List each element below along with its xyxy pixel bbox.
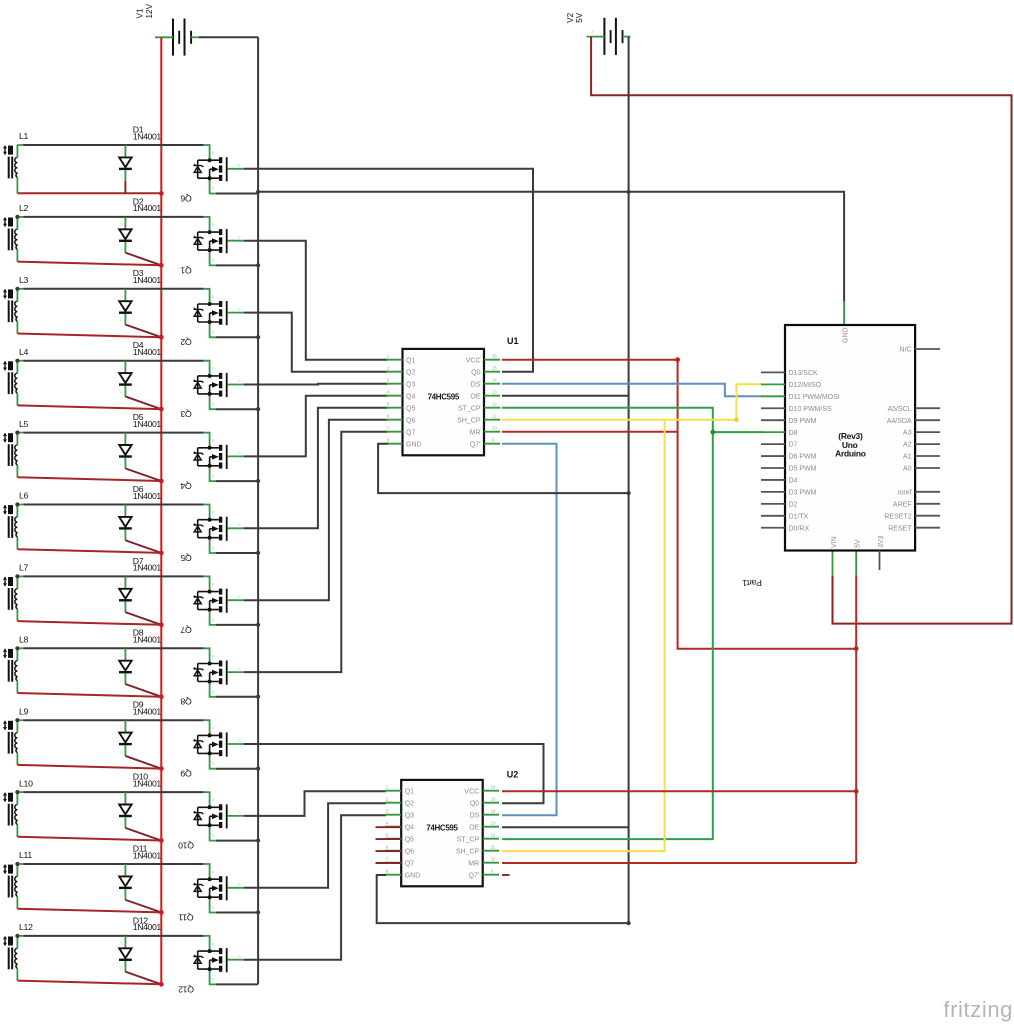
wire gate Q7 to U1 pin Q6 — [244, 420, 388, 601]
wire U2 MR 5V — [502, 862, 856, 864]
svg-text:Q12: Q12 — [178, 984, 194, 994]
svg-text:DS: DS — [471, 381, 481, 388]
svg-text:1N4001: 1N4001 — [133, 563, 162, 573]
svg-text:1N4001: 1N4001 — [133, 707, 162, 717]
wire U1 OE to GND — [502, 395, 629, 397]
junction U1 GND / V2 minus — [627, 491, 631, 495]
wire Q12 source to GND bus — [216, 983, 258, 985]
junction GND bus block 4 — [256, 407, 260, 411]
junction GND bus / horizontal — [256, 190, 260, 194]
svg-text:13: 13 — [491, 821, 496, 826]
junction GND bus block 5 — [256, 479, 260, 483]
svg-text:Q5: Q5 — [180, 553, 191, 563]
node L4 top junction — [15, 359, 19, 363]
svg-text:1N4001: 1N4001 — [133, 635, 162, 645]
junction 12V bus block 10 — [159, 838, 164, 843]
svg-text:L4: L4 — [19, 347, 29, 357]
svg-text:1N4001: 1N4001 — [133, 922, 162, 932]
junction 12V bus block 5 — [159, 479, 164, 484]
wire Q6 source to GND bus — [216, 193, 258, 195]
node L9 top junction — [15, 718, 19, 722]
svg-text:D2: D2 — [789, 501, 798, 508]
inductor L10 — [3, 778, 33, 837]
svg-text:Q9: Q9 — [180, 769, 191, 779]
inductor L6 — [3, 491, 29, 550]
wire VIN green stub — [832, 551, 834, 575]
svg-text:Q3: Q3 — [405, 812, 414, 819]
node L8 top junction — [15, 646, 19, 650]
svg-text:D1/TX: D1/TX — [789, 513, 809, 520]
wire D10 cathode slant to bus — [125, 828, 161, 841]
svg-text:SH_CP: SH_CP — [457, 417, 481, 424]
svg-text:13: 13 — [492, 390, 497, 395]
svg-text:1N4001: 1N4001 — [133, 203, 162, 213]
wire Q3 source to GND bus — [216, 408, 258, 410]
svg-text:1N4001: 1N4001 — [133, 850, 162, 860]
svg-text:5V: 5V — [855, 539, 862, 548]
diode D1 — [119, 124, 161, 181]
wire L5 bottom slant to bus — [17, 477, 161, 481]
svg-text:Q11: Q11 — [178, 912, 193, 922]
wire D2 cathode slant to bus — [125, 253, 161, 266]
svg-text:1N4001: 1N4001 — [133, 131, 162, 141]
wire L9 top to MOSFET drain — [17, 719, 203, 721]
inductor L1 — [3, 131, 29, 190]
svg-text:D5 PWM: D5 PWM — [789, 466, 817, 473]
wire L2 top to MOSFET drain — [17, 216, 203, 218]
wire D6 cathode slant to bus — [125, 540, 161, 553]
wire V2 plus loop to VIN — [591, 37, 1011, 624]
svg-text:A4/SDA: A4/SDA — [887, 418, 912, 425]
node L7 top junction — [15, 574, 19, 578]
svg-text:Arduino: Arduino — [835, 448, 866, 458]
wire gate Q12 to U2 pin Q3 — [244, 815, 386, 960]
svg-text:74HC595: 74HC595 — [428, 392, 460, 401]
svg-text:1N4001: 1N4001 — [133, 419, 162, 429]
svg-text:L8: L8 — [19, 635, 29, 645]
wire Q5 source to GND bus — [216, 552, 258, 554]
battery V1 — [136, 3, 199, 55]
wire GND bus vertical — [257, 37, 259, 984]
inductor L3 — [3, 275, 29, 334]
wire L7 bottom slant to bus — [17, 621, 161, 625]
battery V2 — [566, 12, 630, 55]
svg-text:16: 16 — [492, 354, 497, 359]
svg-text:Q4: Q4 — [406, 393, 415, 400]
wire Q9 source to GND bus — [216, 768, 258, 770]
wire U1 Q0 to gate Q6 — [244, 169, 533, 372]
wire U1 Q7S to U2 DS blue — [502, 444, 557, 816]
junction GND bus block 2 — [256, 263, 260, 267]
wire L11 bottom slant to bus — [17, 909, 161, 913]
svg-text:Q7: Q7 — [405, 860, 414, 867]
wire L1 top to MOSFET drain — [17, 144, 203, 146]
wire D12 cathode slant to bus — [125, 972, 161, 985]
svg-text:D4: D4 — [789, 478, 798, 485]
junction GND bus block 11 — [256, 910, 260, 914]
junction green D8 branch — [710, 430, 715, 435]
wire gate Q4 to U1 pin Q4 — [244, 396, 388, 457]
diode D9 — [119, 700, 161, 757]
svg-text:D12/MISO: D12/MISO — [789, 382, 822, 389]
svg-text:16: 16 — [491, 785, 496, 790]
IC U2 74HC595 — [385, 769, 518, 886]
svg-text:10: 10 — [492, 426, 497, 431]
junction 12V bus block 3 — [159, 335, 164, 340]
inductor L8 — [3, 635, 29, 694]
junction 12V bus block 11 — [159, 910, 164, 915]
wire U1 MR 5V — [502, 431, 678, 433]
svg-text:D13/SCK: D13/SCK — [789, 370, 819, 377]
wire U1 DS to D11 — [502, 384, 763, 397]
diode D6 — [119, 484, 161, 541]
wire L3 top to MOSFET drain — [17, 288, 203, 290]
svg-text:Q6: Q6 — [405, 848, 414, 855]
wire D3 cathode slant to bus — [125, 325, 161, 338]
inductor L11 — [3, 850, 32, 909]
junction yellow — [734, 417, 739, 422]
svg-text:ST_CP: ST_CP — [458, 405, 481, 412]
svg-text:D0/RX: D0/RX — [789, 525, 810, 532]
wire gate Q10 to U2 pin Q1 — [244, 791, 386, 816]
svg-text:15: 15 — [492, 366, 497, 371]
svg-text:A3: A3 — [903, 430, 912, 437]
svg-text:A1: A1 — [903, 454, 912, 461]
wire U2 VCC 5V — [502, 790, 856, 792]
junction GND bus block 9 — [256, 767, 260, 771]
junction GND bus block 3 — [256, 335, 260, 339]
svg-text:fritzing: fritzing — [943, 997, 1013, 1022]
inductor L4 — [3, 347, 29, 406]
svg-text:MR: MR — [470, 429, 481, 436]
transistor Q8 — [180, 648, 243, 706]
svg-text:Q5: Q5 — [405, 836, 414, 843]
inductor L9 — [3, 706, 29, 765]
junction 5V riser — [854, 646, 859, 651]
svg-text:D8: D8 — [789, 430, 798, 437]
svg-text:V1: V1 — [136, 8, 145, 18]
wire L12 top to MOSFET drain — [17, 935, 203, 937]
svg-text:A2: A2 — [903, 442, 912, 449]
wire L1 bottom to 12V bus — [16, 190, 18, 194]
junction 12V bus block 4 — [159, 407, 164, 412]
wire D4 cathode slant to bus — [125, 397, 161, 410]
svg-text:14: 14 — [491, 809, 496, 814]
svg-text:3V3: 3V3 — [878, 535, 885, 548]
wire Q11 source to GND bus — [216, 912, 258, 914]
transistor Q10 — [178, 792, 244, 850]
wire SH_CP yellow U1 — [502, 384, 763, 419]
diode D12 — [119, 915, 161, 972]
svg-text:L10: L10 — [19, 778, 33, 788]
svg-text:N/C: N/C — [900, 347, 912, 354]
svg-text:Q10: Q10 — [178, 841, 194, 851]
wire D1 cathode down — [124, 181, 126, 194]
svg-text:OE: OE — [470, 393, 480, 400]
svg-text:1N4001: 1N4001 — [133, 275, 162, 285]
svg-text:Q7: Q7 — [406, 429, 415, 436]
svg-text:Q3: Q3 — [406, 381, 415, 388]
junction 12V bus block 7 — [159, 622, 164, 627]
wire U1 GND — [378, 444, 628, 493]
svg-text:SH_CP: SH_CP — [456, 848, 480, 855]
svg-text:MR: MR — [468, 860, 479, 867]
svg-text:Q7′: Q7′ — [469, 872, 480, 879]
svg-text:10: 10 — [491, 857, 496, 862]
transistor Q3 — [180, 361, 243, 419]
wire L4 top to MOSFET drain — [17, 360, 203, 362]
wire U2 Q5 red dangle — [376, 838, 402, 840]
junction GND bus block 6 — [256, 551, 260, 555]
wire U2 GND — [377, 875, 629, 923]
svg-text:L3: L3 — [19, 275, 29, 285]
wire 5V green stub — [855, 551, 857, 575]
transistor Q12 — [178, 936, 244, 994]
junction U2 VCC riser — [854, 789, 859, 794]
svg-text:VIN: VIN — [831, 536, 838, 548]
svg-text:Q6: Q6 — [180, 193, 191, 203]
svg-text:DS: DS — [469, 812, 479, 819]
svg-text:RESET2: RESET2 — [884, 513, 911, 520]
wire L8 bottom slant to bus — [17, 693, 161, 697]
inductor L2 — [3, 203, 29, 262]
svg-text:Q0: Q0 — [470, 800, 479, 807]
node L11 top junction — [15, 862, 19, 866]
svg-text:Q0: Q0 — [471, 369, 480, 376]
node L5 top junction — [15, 431, 19, 435]
svg-text:12V: 12V — [145, 3, 154, 18]
wire U2 Q0 to gate Q9 — [244, 744, 544, 803]
wire L10 top to MOSFET drain — [17, 791, 203, 793]
wire gate Q1 to U1 pin Q1 — [244, 241, 388, 360]
svg-text:Q2: Q2 — [405, 800, 414, 807]
transistor Q11 — [178, 864, 243, 922]
wire 12V red bus vertical — [160, 37, 162, 984]
svg-text:14: 14 — [492, 378, 497, 383]
transistor Q9 — [180, 720, 243, 778]
svg-text:VCC: VCC — [464, 788, 479, 795]
diode D5 — [119, 412, 161, 469]
svg-text:Q4: Q4 — [180, 481, 191, 491]
svg-text:L12: L12 — [19, 922, 33, 932]
junction GND horizontal / V2 minus — [627, 190, 631, 194]
svg-text:D7: D7 — [789, 442, 798, 449]
wire Q8 source to GND bus — [216, 696, 258, 698]
junction 12V bus block 6 — [159, 551, 164, 556]
svg-text:Q6: Q6 — [406, 417, 415, 424]
svg-text:Q1: Q1 — [180, 265, 191, 275]
svg-text:ioref: ioref — [898, 489, 912, 496]
svg-text:AREF: AREF — [893, 501, 912, 508]
IC U1 74HC595 — [386, 336, 518, 455]
wire L2 bottom slant to bus — [17, 262, 161, 266]
diode D10 — [119, 772, 161, 829]
svg-text:Q1: Q1 — [406, 357, 415, 364]
junction 12V bus block 9 — [159, 766, 164, 771]
wire Q1 source to GND bus — [216, 264, 258, 266]
node L10 top junction — [15, 790, 19, 794]
svg-text:D10 PWM/SS: D10 PWM/SS — [789, 406, 833, 413]
svg-text:U2: U2 — [507, 769, 519, 779]
svg-text:Q2: Q2 — [180, 337, 191, 347]
svg-text:15: 15 — [491, 797, 496, 802]
svg-text:GND: GND — [843, 327, 850, 343]
wire green branch to D8 — [713, 431, 763, 433]
wire L12 bottom slant to bus — [17, 981, 161, 985]
svg-text:L11: L11 — [19, 850, 32, 860]
diode D3 — [119, 268, 161, 325]
svg-text:Q1: Q1 — [405, 788, 414, 795]
wire Q4 source to GND bus — [216, 480, 258, 482]
wire L11 top to MOSFET drain — [17, 863, 203, 865]
junction U2 GND / V2 minus — [627, 921, 631, 925]
svg-text:12: 12 — [492, 402, 497, 407]
svg-text:D9 PWM: D9 PWM — [789, 418, 817, 425]
wire gate Q8 to U1 pin Q7 — [244, 432, 388, 672]
node L3 top junction — [15, 287, 19, 291]
svg-text:A0: A0 — [903, 466, 912, 473]
node L2 top junction — [15, 215, 19, 219]
svg-text:A5/SCL: A5/SCL — [887, 406, 911, 413]
transistor Q1 — [180, 217, 243, 275]
svg-text:L9: L9 — [19, 706, 29, 716]
node L12 top junction — [15, 934, 19, 938]
wire U1 VCC 5V — [502, 360, 856, 649]
inductor L12 — [3, 922, 33, 981]
wire gate Q11 to U2 pin Q2 — [244, 803, 386, 888]
wire SH_CP yellow U2 riser — [502, 420, 665, 851]
junction 12V bus block 12 — [159, 982, 164, 987]
svg-text:12: 12 — [491, 833, 496, 838]
svg-text:D11 PWM/MOSI: D11 PWM/MOSI — [789, 394, 840, 401]
wire Q2 source to GND bus — [216, 336, 258, 338]
wire main GND horizontal to Arduino GND — [258, 192, 844, 301]
svg-text:11: 11 — [491, 845, 496, 850]
wire L10 bottom slant to bus — [17, 837, 161, 841]
wire Q7 source to GND bus — [216, 624, 258, 626]
transistor Q4 — [180, 433, 243, 491]
diode D4 — [119, 340, 161, 397]
svg-text:5V: 5V — [575, 12, 584, 23]
svg-text:OE: OE — [469, 824, 479, 831]
wire L6 bottom slant to bus — [17, 549, 161, 553]
svg-text:Q2: Q2 — [406, 369, 415, 376]
junction GND bus block 7 — [256, 623, 260, 627]
svg-text:Q5: Q5 — [406, 405, 415, 412]
wire L3 bottom slant to bus — [17, 334, 161, 338]
wire Arduino GND green stub — [843, 301, 845, 325]
wire U2 Q7S red dangle — [502, 874, 510, 876]
wire L7 top to MOSFET drain — [17, 575, 203, 577]
svg-text:Q3: Q3 — [180, 409, 191, 419]
IC Part1 Arduino Uno Rev3 — [761, 325, 940, 570]
transistor Q5 — [180, 505, 243, 563]
junction 12V bus block 1 — [159, 191, 164, 196]
svg-text:L5: L5 — [19, 419, 29, 429]
svg-text:1N4001: 1N4001 — [133, 347, 162, 357]
diode D11 — [119, 843, 161, 900]
svg-text:V2: V2 — [566, 12, 575, 22]
svg-text:11: 11 — [492, 414, 497, 419]
wire L5 top to MOSFET drain — [17, 432, 203, 434]
wire V1 negative lead to bus — [199, 36, 258, 38]
wire L6 top to MOSFET drain — [17, 504, 203, 506]
wire L4 bottom slant to bus — [17, 405, 161, 409]
wire D5 cathode slant to bus — [125, 468, 161, 481]
diode D2 — [119, 196, 161, 253]
svg-text:Part1: Part1 — [742, 578, 762, 588]
wire ST_CP green net — [502, 408, 713, 839]
wire 5V pin riser — [855, 575, 857, 863]
wire Q10 source to GND bus — [216, 840, 258, 842]
svg-text:Q7: Q7 — [180, 625, 191, 635]
node L6 top junction — [15, 502, 19, 506]
svg-text:GND: GND — [406, 441, 422, 448]
svg-text:L6: L6 — [19, 491, 29, 501]
wire L8 top to MOSFET drain — [17, 647, 203, 649]
svg-text:D6 PWM: D6 PWM — [789, 454, 817, 461]
wire gate Q5 to U1 pin Q5 — [244, 408, 388, 529]
svg-text:U1: U1 — [507, 336, 519, 346]
wire U2 OE to GND — [502, 826, 629, 828]
svg-text:L1: L1 — [19, 131, 29, 141]
inductor L7 — [3, 563, 29, 622]
svg-text:74HC595: 74HC595 — [426, 823, 458, 832]
junction U1 VCC corner — [675, 357, 680, 362]
svg-text:1N4001: 1N4001 — [133, 778, 162, 788]
wire U2 Q4 red dangle — [376, 826, 402, 828]
svg-text:L7: L7 — [19, 563, 29, 573]
transistor Q2 — [180, 289, 243, 347]
transistor Q7 — [180, 576, 243, 634]
svg-text:1N4001: 1N4001 — [133, 491, 162, 501]
svg-text:ST_CP: ST_CP — [457, 836, 480, 843]
diode D8 — [119, 628, 161, 685]
svg-text:Q4: Q4 — [405, 824, 414, 831]
inductor L5 — [3, 419, 29, 478]
junction GND bus block 10 — [256, 838, 260, 842]
wire D8 cathode slant to bus — [125, 684, 161, 697]
svg-text:GND: GND — [405, 872, 421, 879]
wire gate Q3 to U1 pin Q3 — [244, 383, 388, 386]
junction 12V bus block 2 — [159, 263, 164, 268]
wire gate Q2 to U1 pin Q2 — [244, 313, 388, 372]
wire V2 minus vertical (GND net) — [628, 37, 630, 924]
wire D7 cathode slant to bus — [125, 612, 161, 625]
svg-text:Q7′: Q7′ — [470, 441, 481, 448]
diode D7 — [119, 556, 161, 613]
wire D9 cathode slant to bus — [125, 756, 161, 769]
junction 12V bus block 8 — [159, 694, 164, 699]
wire U2 Q6 red dangle — [376, 850, 402, 852]
svg-text:RESET: RESET — [888, 525, 912, 532]
wire L9 bottom slant to bus — [17, 765, 161, 769]
svg-text:L2: L2 — [19, 203, 29, 213]
svg-text:Q8: Q8 — [180, 697, 191, 707]
svg-text:D3 PWM: D3 PWM — [789, 490, 817, 497]
transistor Q6 — [180, 145, 243, 203]
svg-text:VCC: VCC — [466, 357, 481, 364]
wire D11 cathode slant to bus — [125, 900, 161, 913]
junction GND bus block 8 — [256, 695, 260, 699]
wire U2 Q7 red dangle — [376, 862, 402, 864]
